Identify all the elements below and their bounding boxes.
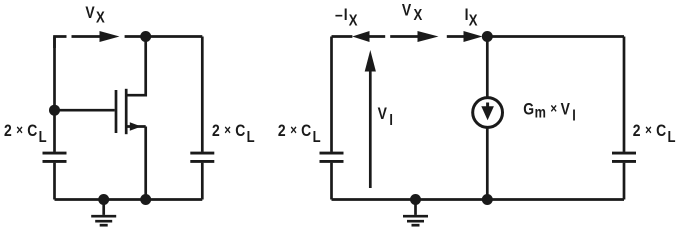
wire current-source bottom lead [486, 129, 489, 200]
wire left-circuit top stub [55, 37, 67, 49]
ground (right circuit) [403, 200, 428, 226]
svg-text:VI: VI [378, 105, 393, 130]
capacitor 2xCL (right circuit, right) [612, 153, 636, 161]
label 2xCL (right circuit, left) [278, 122, 321, 147]
capacitor 2xCL (left circuit, right) [190, 153, 214, 161]
label Vx (right circuit) [402, 1, 423, 24]
node source-bottom junction [140, 194, 151, 205]
svg-text:–IX: –IX [335, 6, 358, 30]
wire left-circuit top right segment [125, 35, 203, 38]
wire left-circuit left wall lower [53, 163, 56, 200]
svg-text:2×CL: 2×CL [4, 122, 47, 147]
label VI [378, 105, 393, 130]
label 2xCL (right circuit, right) [633, 122, 676, 147]
wire right-circuit left wall lower [330, 163, 333, 200]
capacitor 2xCL (right circuit, left) [320, 153, 344, 161]
svg-text:2×CL: 2×CL [633, 122, 676, 147]
wire right-circuit top right segment [487, 35, 624, 38]
wire left-circuit right wall upper [201, 37, 204, 152]
wire left-circuit bottom [55, 198, 203, 201]
node current-source bottom junction [482, 194, 493, 205]
wire right-circuit top stub left [332, 35, 353, 38]
wire right-circuit right wall lower [623, 163, 626, 200]
svg-text:IX: IX [465, 6, 478, 30]
wire current-source top lead [486, 37, 489, 97]
Vx annotation arrow (left circuit) [72, 31, 120, 42]
annotation arrow Vx (points right) [390, 31, 438, 42]
label VX (left circuit) [85, 4, 105, 27]
node top junction (right circuit) [482, 31, 493, 42]
node gate tap [49, 105, 60, 116]
wire right-circuit right wall upper [623, 37, 626, 152]
label 2xCL (left circuit, left) [4, 122, 47, 147]
annotation arrow Ix (points right into node) [447, 31, 483, 42]
capacitor 2xCL (left circuit, left) [43, 153, 67, 161]
wire gate lead [55, 109, 115, 112]
label Gm x VI [523, 100, 576, 125]
node drain-top junction [140, 31, 151, 42]
current source Gm*VI [473, 98, 503, 128]
wire left-circuit right wall lower [201, 163, 204, 200]
svg-text:2×CL: 2×CL [212, 122, 255, 147]
svg-text:Gm×VI: Gm×VI [523, 100, 576, 125]
node ground junction (right circuit) [410, 194, 421, 205]
transistor M1 [116, 37, 146, 200]
wire right-circuit bottom [332, 198, 625, 201]
ground (left circuit) [91, 200, 116, 226]
svg-text:VX: VX [402, 1, 423, 24]
wire left-circuit left wall upper [53, 37, 56, 152]
annotation arrow VI (points up) [365, 50, 376, 188]
svg-text:VX: VX [85, 4, 105, 27]
label -Ix [335, 6, 358, 30]
node ground junction (left circuit) [98, 194, 109, 205]
label Ix [465, 6, 478, 30]
svg-text:2×CL: 2×CL [278, 122, 321, 147]
label 2xCL (left circuit, right) [212, 122, 255, 147]
annotation arrow -Ix (points left) [352, 31, 385, 42]
wire right-circuit left wall upper [330, 37, 333, 152]
